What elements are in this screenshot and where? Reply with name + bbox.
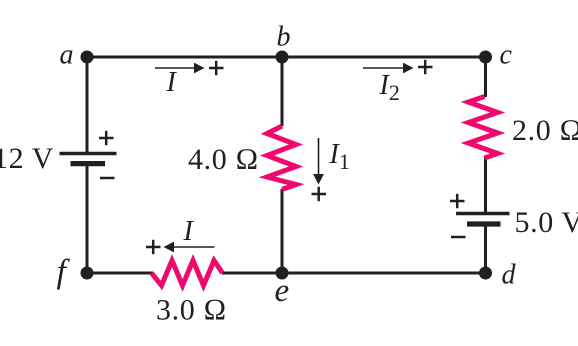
svg-text:2.0 Ω: 2.0 Ω bbox=[512, 114, 578, 147]
wire left a to battery top bbox=[86, 57, 89, 152]
resistor R3 2.0 ohm (right) bbox=[468, 97, 497, 159]
node f bbox=[81, 267, 94, 280]
current arrow I2 (top right) bbox=[363, 63, 414, 74]
wire right resistor bottom to battery top bbox=[484, 157, 487, 212]
current arrow I (bottom, left) bbox=[164, 242, 215, 253]
current arrow I (top left) bbox=[155, 63, 205, 74]
svg-text:c: c bbox=[500, 40, 513, 71]
wire top a-b-c bbox=[87, 56, 486, 59]
svg-text:3.0 Ω: 3.0 Ω bbox=[156, 294, 227, 327]
svg-text:I: I bbox=[166, 67, 178, 98]
wire right battery bottom to d bbox=[484, 226, 487, 273]
node d bbox=[479, 267, 492, 280]
wire middle b to resistor top bbox=[281, 57, 284, 126]
node e bbox=[276, 267, 289, 280]
resistor R1 3.0 ohm (bottom) bbox=[152, 261, 223, 286]
plus sign at bottom arrow bbox=[146, 240, 161, 254]
svg-text:b: b bbox=[277, 22, 291, 53]
wire bottom resistor right to e to d bbox=[222, 272, 486, 275]
battery V1 12V bbox=[60, 154, 117, 164]
plus sign below I1 arrow bbox=[312, 187, 327, 201]
battery V1 plus sign bbox=[99, 131, 114, 145]
wire left battery bottom to f bbox=[86, 165, 89, 273]
wire middle resistor bottom to e bbox=[281, 189, 284, 273]
wire bottom f to resistor left bbox=[87, 272, 153, 275]
svg-text:I: I bbox=[183, 216, 195, 247]
node c bbox=[479, 51, 492, 64]
current arrow I1 (middle, down) bbox=[313, 138, 324, 185]
svg-text:e: e bbox=[275, 273, 290, 309]
svg-text:12 V: 12 V bbox=[0, 142, 54, 175]
svg-text:a: a bbox=[60, 40, 74, 71]
svg-text:4.0 Ω: 4.0 Ω bbox=[188, 143, 259, 176]
svg-text:d: d bbox=[502, 260, 517, 291]
svg-text:5.0 V: 5.0 V bbox=[515, 206, 578, 239]
node a bbox=[81, 51, 94, 64]
battery V2 minus sign bbox=[451, 236, 466, 239]
plus sign at arrow I2 bbox=[418, 60, 433, 74]
node b bbox=[276, 51, 289, 64]
battery V1 minus sign bbox=[100, 177, 115, 180]
resistor R2 4.0 ohm (middle) bbox=[267, 126, 296, 190]
wire right c to resistor top bbox=[484, 57, 487, 97]
plus sign at arrow I top bbox=[209, 61, 224, 75]
battery V2 plus sign bbox=[450, 194, 465, 208]
battery V2 5.0V bbox=[456, 214, 510, 225]
